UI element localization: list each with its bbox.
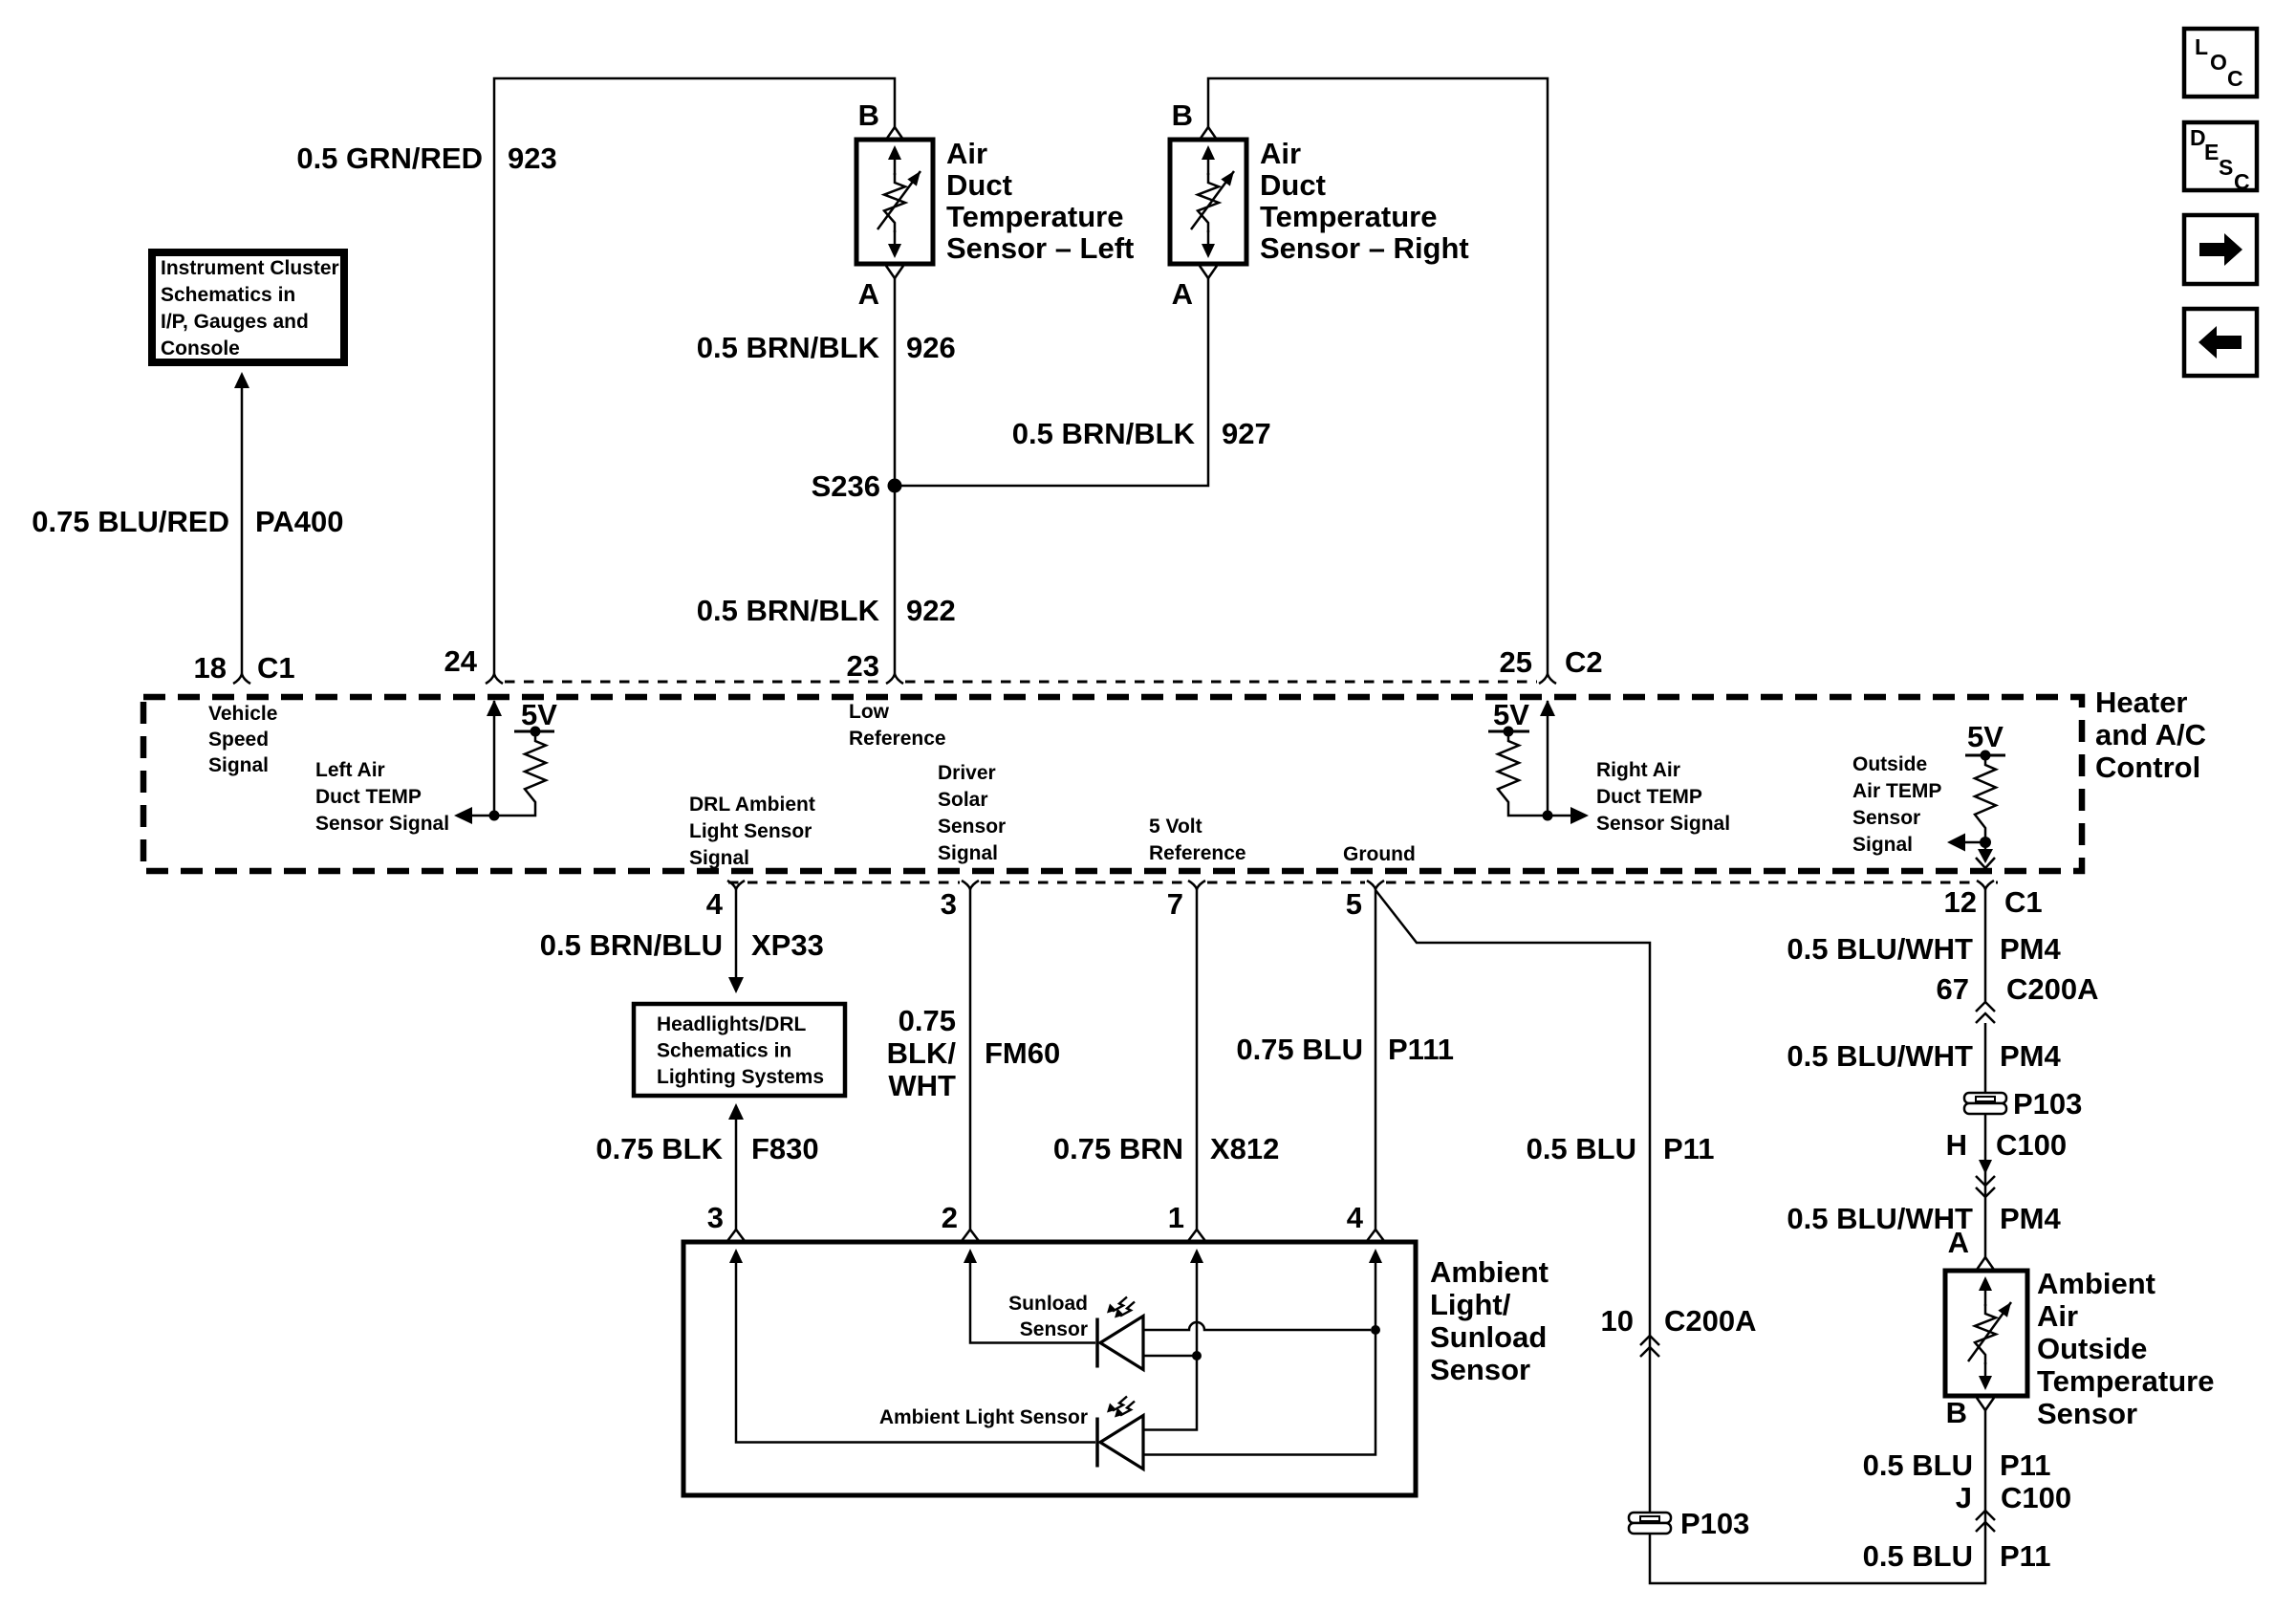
svg-text:Sensor – Left: Sensor – Left — [946, 231, 1134, 265]
pin 18 C1 — [194, 651, 295, 685]
svg-text:4: 4 — [706, 887, 724, 921]
svg-text:Ground: Ground — [1343, 843, 1416, 865]
svg-text:Reference: Reference — [1149, 842, 1246, 864]
ambient light sensor photodiode — [879, 1397, 1143, 1469]
pin 3 — [941, 881, 979, 921]
svg-text:Console: Console — [161, 337, 240, 359]
svg-text:0.5 BRN/BLK: 0.5 BRN/BLK — [697, 594, 880, 627]
svg-text:C1: C1 — [2004, 885, 2043, 919]
svg-text:25: 25 — [1500, 645, 1532, 679]
svg-text:Signal: Signal — [938, 842, 998, 864]
label Outside Air TEMP Sensor Signal — [1852, 753, 1941, 856]
svg-text:Signal: Signal — [689, 847, 749, 869]
sensor internal wire pin3 to ambient cathode — [729, 1249, 1095, 1443]
svg-text:Light/: Light/ — [1430, 1288, 1511, 1321]
svg-text:Signal: Signal — [1852, 834, 1913, 856]
svg-text:5V: 5V — [1967, 720, 2004, 753]
svg-text:Duct: Duct — [1260, 168, 1326, 202]
pin 5 — [1346, 881, 1384, 921]
sensor internal wire pin1 — [1144, 1249, 1203, 1430]
label 0.5 BLU/WHT PM4 3 — [1787, 1202, 2061, 1235]
svg-text:3: 3 — [941, 887, 957, 921]
svg-text:Sensor: Sensor — [1020, 1318, 1088, 1340]
svg-text:Temperature: Temperature — [1260, 200, 1438, 233]
svg-text:Speed: Speed — [208, 729, 269, 751]
svg-text:Duct TEMP: Duct TEMP — [1596, 786, 1702, 808]
label 0.75 BRN X812 — [1053, 1132, 1280, 1165]
nav button back (left arrow) — [2184, 309, 2257, 376]
svg-text:Low: Low — [849, 701, 890, 723]
wire P11 bottom run — [1650, 1410, 1985, 1583]
label 0.5 BRN/BLK 926 — [697, 331, 956, 364]
nav button DESC — [2184, 122, 2257, 194]
svg-text:Lighting Systems: Lighting Systems — [657, 1066, 824, 1088]
svg-text:WHT: WHT — [888, 1069, 956, 1102]
svg-text:C1: C1 — [257, 651, 295, 685]
wire XP33 (0.5 BRN/BLU) pin 4 to headlights box — [728, 889, 744, 993]
svg-text:P111: P111 — [1388, 1033, 1454, 1066]
svg-text:PM4: PM4 — [2000, 1202, 2062, 1235]
label Vehicle Speed Signal — [208, 703, 277, 776]
svg-text:23: 23 — [847, 649, 879, 683]
svg-text:FM60: FM60 — [985, 1036, 1060, 1070]
svg-text:Sensor Signal: Sensor Signal — [315, 813, 449, 835]
pin B right sensor — [1172, 98, 1217, 140]
svg-text:5: 5 — [1346, 887, 1362, 921]
svg-text:PA400: PA400 — [255, 505, 344, 538]
label 0.5 BLU/WHT PM4 2 — [1787, 1039, 2061, 1073]
wire PM4 segment 3 — [1984, 1114, 1987, 1257]
svg-text:Driver: Driver — [938, 762, 996, 784]
svg-text:P103: P103 — [1680, 1507, 1749, 1540]
svg-text:0.75 BRN: 0.75 BRN — [1053, 1132, 1183, 1165]
svg-text:Sunload: Sunload — [1430, 1320, 1547, 1354]
label Air Duct Temperature Sensor - Right — [1260, 137, 1469, 265]
internal 5V pullup - left air duct temp — [454, 698, 557, 824]
svg-text:C200A: C200A — [2006, 972, 2099, 1006]
svg-text:DRL Ambient: DRL Ambient — [689, 794, 815, 816]
label Air Duct Temperature Sensor - Left — [946, 137, 1134, 265]
svg-text:5 Volt: 5 Volt — [1149, 816, 1202, 838]
label 0.5 BRN/BLU XP33 — [540, 928, 824, 962]
svg-text:A: A — [858, 277, 879, 311]
pass-through grommet P103 lower — [1629, 1507, 1749, 1540]
label DRL Ambient Light Sensor Signal — [689, 794, 815, 869]
label Heater and A/C Control — [2095, 686, 2206, 784]
svg-text:5V: 5V — [1493, 698, 1529, 731]
svg-text:12: 12 — [1944, 885, 1977, 919]
svg-text:PM4: PM4 — [2000, 932, 2062, 966]
svg-text:923: 923 — [508, 142, 557, 175]
sensor pin 3 — [707, 1201, 745, 1241]
svg-text:X812: X812 — [1210, 1132, 1279, 1165]
svg-text:F830: F830 — [751, 1132, 819, 1165]
svg-text:Ambient Light Sensor: Ambient Light Sensor — [879, 1406, 1088, 1428]
svg-text:5V: 5V — [521, 698, 557, 731]
label 0.5 BLU/WHT PM4 1 — [1787, 932, 2061, 966]
svg-text:PM4: PM4 — [2000, 1039, 2062, 1073]
svg-text:926: 926 — [906, 331, 956, 364]
svg-text:0.5 BLU/WHT: 0.5 BLU/WHT — [1787, 932, 1973, 966]
svg-text:P11: P11 — [2000, 1539, 2050, 1573]
svg-text:C200A: C200A — [1664, 1304, 1757, 1338]
svg-text:Sensor – Right: Sensor – Right — [1260, 231, 1469, 265]
label 0.5 BLU P11 left — [1527, 1132, 1715, 1165]
svg-text:Light Sensor: Light Sensor — [689, 820, 812, 842]
pin 25 C2 — [1500, 645, 1603, 684]
ambient air outside temperature sensor (box) — [1945, 1271, 2027, 1396]
svg-text:C100: C100 — [1996, 1128, 2067, 1162]
wire PA400 (0.75 BLU/RED) pin 18 to instrument cluster — [234, 372, 249, 674]
label 5 Volt Reference — [1149, 816, 1246, 864]
svg-text:927: 927 — [1222, 417, 1271, 450]
svg-text:Sensor Signal: Sensor Signal — [1596, 813, 1730, 835]
wire PM4 segment 2 — [1984, 1023, 1987, 1093]
svg-text:0.75 BLU/RED: 0.75 BLU/RED — [32, 505, 229, 538]
wire 923 (0.5 GRN/RED) from pin 24 up and over to left sensor pin B — [494, 78, 895, 674]
internal 5V pullup - outside air temp — [1947, 720, 2005, 868]
svg-text:0.5 BLU/WHT: 0.5 BLU/WHT — [1787, 1039, 1973, 1073]
wire 924 (0.5 GRN/BRN) right sensor B up over to pin 25 — [1208, 78, 1548, 674]
wire X812 (0.75 BRN) pin 7 to sensor pin 1 — [1196, 889, 1199, 1230]
label Ambient Air Outside Temperature Sensor — [2037, 1267, 2215, 1430]
svg-text:2: 2 — [942, 1201, 958, 1234]
pin B ambient air sensor — [1946, 1396, 1994, 1429]
svg-text:1: 1 — [1168, 1201, 1184, 1234]
pin 24 — [444, 644, 503, 684]
pass-through grommet P103 upper — [1964, 1087, 2082, 1121]
svg-text:Reference: Reference — [849, 728, 946, 750]
air duct temperature sensor - left (box) — [856, 140, 933, 264]
svg-text:H: H — [1946, 1128, 1967, 1162]
wire 927 (0.5 BRN/BLK) right sensor A to S236 — [900, 278, 1208, 486]
svg-text:0.5 BRN/BLK: 0.5 BRN/BLK — [697, 331, 880, 364]
svg-text:Duct: Duct — [946, 168, 1012, 202]
air duct temperature sensor - right (box) — [1170, 140, 1246, 264]
pin 23 — [847, 649, 903, 684]
svg-text:L: L — [2195, 34, 2208, 59]
wire P11 (0.5 BLU) ground from pin 5 to P103 — [1375, 890, 1650, 1513]
svg-text:Vehicle: Vehicle — [208, 703, 277, 725]
sensor pin 1 — [1168, 1201, 1205, 1241]
svg-text:7: 7 — [1167, 887, 1183, 921]
svg-text:Sensor: Sensor — [1852, 807, 1920, 829]
label Right Air Duct TEMP Sensor Signal — [1596, 759, 1730, 835]
wire FM60 (0.75 BLK/WHT) pin 3 to sensor pin 2 — [969, 889, 972, 1230]
label 0.75 BLK/WHT FM60 — [887, 1004, 1061, 1102]
sunload sensor photodiode — [1008, 1293, 1143, 1370]
connector J C100 — [1956, 1481, 2071, 1532]
svg-text:0.5 BRN/BLU: 0.5 BRN/BLU — [540, 928, 723, 962]
wire PM4 (0.5 BLU/WHT) pin 12 to C200A — [1984, 889, 1987, 1002]
svg-text:0.75: 0.75 — [899, 1004, 956, 1037]
svg-text:P11: P11 — [2000, 1448, 2050, 1482]
svg-text:Schematics in: Schematics in — [657, 1040, 791, 1062]
svg-text:Duct TEMP: Duct TEMP — [315, 786, 422, 808]
svg-text:0.75 BLK: 0.75 BLK — [596, 1132, 723, 1165]
label 0.75 BLK F830 — [596, 1132, 818, 1165]
svg-text:Air: Air — [1260, 137, 1301, 170]
svg-text:Heater: Heater — [2095, 686, 2188, 719]
svg-text:Signal: Signal — [208, 754, 269, 776]
wire 922 (0.5 BRN/BLK) S236 to pin 23 — [894, 486, 897, 674]
label Driver Solar Sensor Signal — [938, 762, 1006, 864]
splice S236 — [812, 469, 902, 503]
label 0.5 BRN/BLK 922 — [697, 594, 956, 627]
label 0.5 BRN/BLK 927 — [1012, 417, 1271, 450]
headlights/DRL reference box — [634, 1004, 845, 1096]
label Ground — [1343, 843, 1416, 865]
sunload diode top wire with hop — [1143, 1322, 1371, 1330]
pin A ambient air sensor — [1948, 1226, 1994, 1270]
heater and A/C control module (dashed box) — [143, 697, 2082, 871]
label 0.75 BLU/RED PA400 — [32, 505, 343, 538]
svg-text:4: 4 — [1347, 1201, 1364, 1234]
svg-text:Headlights/DRL: Headlights/DRL — [657, 1013, 807, 1035]
svg-text:B: B — [1172, 98, 1193, 132]
svg-text:Sensor: Sensor — [1430, 1353, 1530, 1386]
svg-text:Left Air: Left Air — [315, 759, 385, 781]
svg-text:C100: C100 — [2001, 1481, 2071, 1514]
wire F830 (0.75 BLK) headlights box to sensor pin 3 — [728, 1103, 744, 1230]
svg-text:10: 10 — [1601, 1304, 1634, 1338]
svg-text:Instrument Cluster: Instrument Cluster — [161, 257, 339, 279]
svg-text:0.5 BLU: 0.5 BLU — [1863, 1448, 1973, 1482]
svg-text:Solar: Solar — [938, 789, 988, 811]
svg-text:and A/C: and A/C — [2095, 718, 2206, 751]
svg-text:922: 922 — [906, 594, 956, 627]
label 0.5 BLU P11 bottom — [1863, 1539, 2051, 1573]
svg-text:C: C — [2227, 66, 2243, 91]
svg-text:XP33: XP33 — [751, 928, 824, 962]
label Low Reference — [849, 701, 946, 750]
svg-text:BLK/: BLK/ — [887, 1036, 957, 1070]
label Left Air Duct TEMP Sensor Signal — [315, 759, 449, 835]
connector 67 C200A — [1937, 972, 2099, 1023]
nav button LOC — [2184, 29, 2257, 97]
svg-text:Sunload: Sunload — [1008, 1293, 1088, 1315]
label Ambient Light/Sunload Sensor — [1430, 1255, 1549, 1386]
nav button next (right arrow) — [2184, 215, 2257, 284]
sensor internal wire pin2 to sunload cathode — [964, 1249, 1095, 1343]
svg-text:J: J — [1956, 1481, 1972, 1514]
svg-text:Air: Air — [946, 137, 987, 170]
svg-text:Air: Air — [2037, 1299, 2078, 1333]
connector H C100 — [1946, 1128, 2068, 1197]
pin 12 C1 — [1944, 881, 2043, 919]
svg-text:0.5 GRN/RED: 0.5 GRN/RED — [296, 142, 483, 175]
pin A left sensor — [858, 266, 903, 311]
svg-text:0.5 BLU: 0.5 BLU — [1863, 1539, 1973, 1573]
svg-text:67: 67 — [1937, 972, 1969, 1006]
svg-text:Ambient: Ambient — [2037, 1267, 2155, 1300]
svg-text:Sensor: Sensor — [938, 816, 1006, 838]
svg-text:B: B — [858, 98, 879, 132]
svg-text:C2: C2 — [1565, 645, 1603, 679]
svg-text:0.5 BRN/BLK: 0.5 BRN/BLK — [1012, 417, 1196, 450]
svg-text:Sensor: Sensor — [2037, 1397, 2137, 1430]
instrument cluster reference box — [152, 252, 344, 362]
connector dashed line bottom — [728, 882, 1998, 884]
svg-text:P103: P103 — [2013, 1087, 2082, 1121]
svg-text:0.5 BLU: 0.5 BLU — [1527, 1132, 1636, 1165]
svg-text:18: 18 — [194, 651, 227, 685]
svg-text:Right Air: Right Air — [1596, 759, 1680, 781]
pin A right sensor — [1172, 266, 1217, 311]
svg-text:S236: S236 — [812, 469, 880, 503]
svg-text:E: E — [2204, 140, 2219, 164]
svg-text:S: S — [2219, 155, 2233, 180]
svg-text:3: 3 — [707, 1201, 724, 1234]
svg-text:24: 24 — [444, 644, 478, 678]
svg-text:B: B — [1946, 1396, 1967, 1429]
label 0.75 BLU P111 — [1236, 1033, 1454, 1066]
connector dashed line C1/C2 top — [505, 681, 1537, 684]
svg-text:Schematics in: Schematics in — [161, 284, 295, 306]
pin B left sensor — [858, 98, 903, 140]
svg-text:Air TEMP: Air TEMP — [1852, 780, 1941, 802]
svg-text:A: A — [1172, 277, 1193, 311]
svg-text:Outside: Outside — [2037, 1332, 2147, 1365]
svg-text:0.75 BLU: 0.75 BLU — [1236, 1033, 1363, 1066]
svg-text:0.5 BLU/WHT: 0.5 BLU/WHT — [1787, 1202, 1973, 1235]
svg-text:Control: Control — [2095, 751, 2200, 784]
svg-text:C: C — [2234, 169, 2250, 194]
label 0.5 GRN/RED 923 — [296, 142, 556, 175]
svg-text:A: A — [1948, 1226, 1969, 1259]
pin 4 — [706, 881, 745, 921]
wire P111 (0.75 BLU) pin 5 to sensor pin 4 — [1375, 889, 1377, 1230]
svg-text:Outside: Outside — [1852, 753, 1927, 775]
sunload diode bottom wire — [1143, 1355, 1197, 1358]
pin 7 — [1167, 881, 1205, 921]
sensor internal wire pin4 — [1144, 1249, 1382, 1455]
wire 926 (0.5 BRN/BLK) left sensor A to S236 — [894, 278, 897, 481]
sensor pin 2 — [942, 1201, 979, 1241]
label 0.5 BLU P11 right — [1863, 1448, 2051, 1482]
ambient light/sunload sensor (box) — [683, 1242, 1416, 1495]
svg-text:Ambient: Ambient — [1430, 1255, 1549, 1289]
sensor pin 4 — [1347, 1201, 1384, 1241]
internal 5V pullup - right air duct temp — [1488, 698, 1589, 824]
svg-text:Temperature: Temperature — [2037, 1364, 2215, 1398]
svg-text:Temperature: Temperature — [946, 200, 1124, 233]
connector 10 C200A — [1601, 1304, 1757, 1357]
svg-text:P11: P11 — [1663, 1132, 1714, 1165]
svg-text:O: O — [2210, 50, 2227, 75]
svg-text:I/P, Gauges and: I/P, Gauges and — [161, 311, 309, 333]
